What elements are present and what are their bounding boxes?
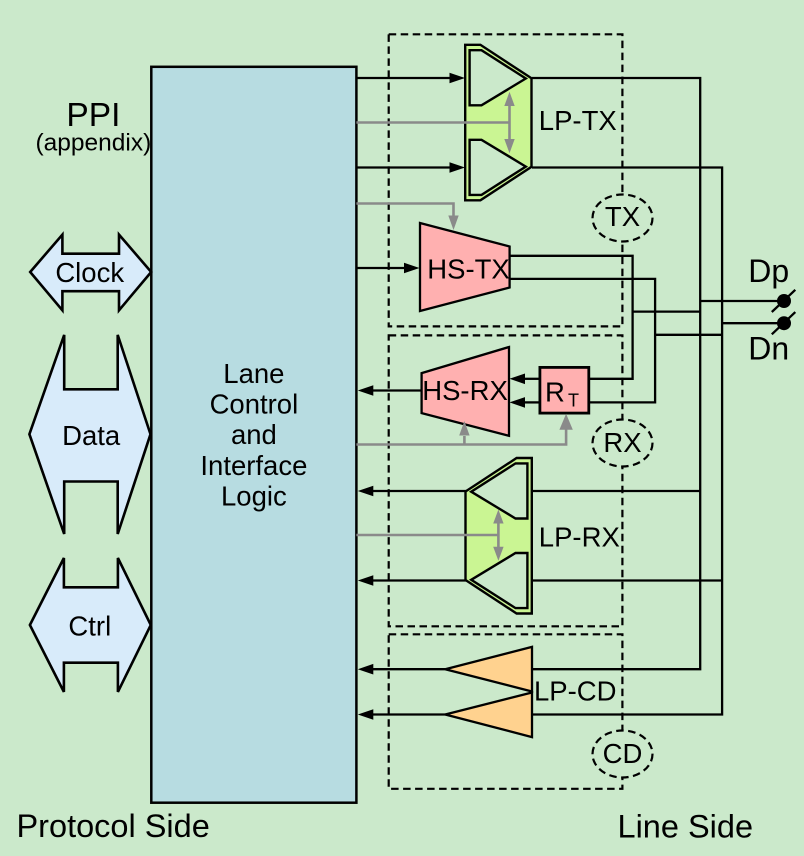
- svg-text:LP-TX: LP-TX: [539, 105, 617, 136]
- wire lp-cd bottom output: [373, 713, 446, 715]
- gray double arrow lp-rx: [497, 522, 500, 549]
- wire branch lp-rx bottom input: [532, 579, 722, 581]
- clock double arrow: [30, 235, 151, 311]
- svg-text:Logic: Logic: [221, 480, 287, 511]
- svg-text:RX: RX: [603, 427, 641, 458]
- svg-text:TX: TX: [605, 201, 640, 232]
- lane control box text: [200, 358, 307, 512]
- wire lp-tx top output to vertical A to lp-cd top input: [532, 78, 700, 669]
- hs-tx trapezoid: [420, 223, 510, 311]
- wire branch lp-rx top input: [532, 490, 700, 492]
- gray wire into lp-rx: [356, 534, 498, 537]
- svg-text:LP-CD: LP-CD: [534, 676, 617, 707]
- lp-rx lower driver pentagon: [471, 553, 527, 608]
- ellipse RX: [593, 420, 653, 467]
- svg-text:HS-RX: HS-RX: [422, 375, 508, 406]
- dashed box CD: [389, 634, 623, 789]
- svg-text:Lane: Lane: [223, 358, 284, 389]
- svg-text:Line Side: Line Side: [618, 808, 754, 844]
- svg-text:R: R: [545, 376, 565, 407]
- gray double arrow lp-tx: [508, 105, 511, 141]
- wire RT to hs-rx lower: [525, 401, 540, 403]
- gray wire to hs-rx and RT enable: [356, 428, 566, 445]
- wire lp-tx bottom output to vertical B to lp-cd bottom input: [532, 168, 722, 715]
- svg-text:Control: Control: [210, 388, 299, 419]
- gray wire into lp-tx: [356, 121, 509, 124]
- wire branch hs-tx A to vertical A: [633, 310, 701, 312]
- wire lp-rx top output: [373, 490, 467, 492]
- wire hs-tx output A to RT: [510, 256, 633, 379]
- gray wire to hs-tx enable: [356, 204, 453, 217]
- ellipse TX: [593, 195, 653, 242]
- wire lp-cd top output: [373, 668, 446, 670]
- lp-cd upper triangle: [445, 647, 532, 692]
- svg-text:Data: Data: [62, 420, 121, 451]
- wire Dn tap: [722, 322, 778, 324]
- svg-text:(appendix): (appendix): [36, 129, 152, 156]
- lp-tx outer shape: [465, 45, 531, 201]
- ellipse CD: [593, 731, 653, 778]
- wire Dp tap: [700, 300, 778, 302]
- dashed box TX: [389, 34, 623, 326]
- svg-text:LP-RX: LP-RX: [539, 522, 620, 553]
- wire lp-rx bottom output: [373, 579, 467, 581]
- svg-text:Dn: Dn: [748, 331, 789, 367]
- svg-text:PPI: PPI: [66, 97, 120, 134]
- svg-text:Ctrl: Ctrl: [68, 611, 111, 642]
- lp-tx upper driver pentagon: [470, 50, 526, 105]
- svg-text:and: and: [231, 419, 277, 450]
- lp-tx lower driver pentagon: [470, 140, 526, 195]
- lp-cd lower triangle: [445, 693, 532, 738]
- lp-rx upper driver pentagon: [471, 463, 527, 518]
- resistor RT box: [540, 367, 589, 413]
- data double arrow: [29, 335, 150, 534]
- wire lp-tx bottom input: [356, 166, 450, 168]
- wire hs-tx output B to RT: [510, 279, 655, 403]
- wire hs-tx input: [356, 267, 405, 269]
- wire branch hs-tx B to vertical B: [655, 334, 722, 336]
- dashed box RX: [389, 335, 623, 626]
- svg-text:CD: CD: [603, 738, 643, 769]
- lane control box: [151, 67, 356, 803]
- wire lp-tx top input: [356, 77, 450, 79]
- wire hs-rx output: [373, 389, 422, 391]
- ctrl double arrow: [30, 558, 151, 692]
- svg-text:Protocol Side: Protocol Side: [17, 808, 210, 844]
- wire RT to hs-rx upper: [525, 378, 540, 380]
- svg-text:Interface: Interface: [200, 450, 307, 481]
- svg-text:HS-TX: HS-TX: [427, 254, 510, 285]
- svg-text:Clock: Clock: [55, 257, 124, 288]
- node Dn dot: [777, 316, 791, 330]
- lp-rx outer shape: [466, 458, 532, 614]
- hs-rx trapezoid: [422, 347, 509, 436]
- svg-text:Dp: Dp: [748, 253, 789, 289]
- node Dp dot: [777, 294, 791, 308]
- svg-text:T: T: [568, 391, 579, 411]
